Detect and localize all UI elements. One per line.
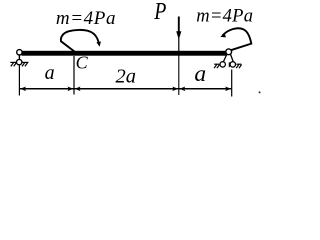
svg-text:P: P xyxy=(153,0,166,25)
svg-text:a: a xyxy=(194,61,206,87)
svg-text:C: C xyxy=(76,53,89,73)
svg-text:a: a xyxy=(45,62,55,84)
svg-text:m=4Pa: m=4Pa xyxy=(196,7,253,27)
svg-text:m=4Pa: m=4Pa xyxy=(56,8,116,29)
svg-text:2a: 2a xyxy=(116,66,137,88)
